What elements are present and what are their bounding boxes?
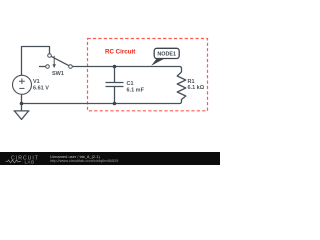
svg-text:RC Circuit: RC Circuit (105, 49, 135, 56)
junction dot at ground node (20, 102, 24, 106)
junction dot at C1 top (113, 65, 117, 69)
svg-text:6.61 V: 6.61 V (33, 85, 49, 91)
wire V1 top to SW1 pole (22, 47, 50, 76)
junction dot at C1 bottom (113, 102, 117, 106)
ground (14, 111, 30, 120)
wire to ground symbol (21, 104, 23, 111)
node NODE1 callout (151, 48, 179, 66)
svg-text:6.1 kΩ: 6.1 kΩ (188, 85, 205, 91)
svg-text:6.1 mF: 6.1 mF (127, 87, 145, 93)
switch SW1 (39, 54, 72, 69)
voltage source V1 (13, 75, 32, 94)
CircuitLab logo (6, 156, 40, 165)
resistor R1 (177, 72, 186, 100)
svg-text:LAB: LAB (25, 159, 35, 164)
svg-text:V1: V1 (33, 79, 40, 85)
svg-text:SW1: SW1 (52, 71, 64, 77)
RC Circuit enclosure (red dashed box) (88, 39, 208, 111)
svg-text:http://www.circuitlab.com/c/sf: http://www.circuitlab.com/c/sfq6m86529 (50, 158, 118, 163)
svg-text:C1: C1 (127, 81, 134, 87)
capacitor C1 (106, 67, 124, 104)
wire SW1 throw to R1 top (73, 67, 182, 73)
svg-text:NODE1: NODE1 (157, 52, 176, 58)
footer watermark bar (0, 152, 220, 165)
wire R1 bottom to ground node (22, 99, 182, 104)
wire V1 bottom (21, 95, 23, 104)
